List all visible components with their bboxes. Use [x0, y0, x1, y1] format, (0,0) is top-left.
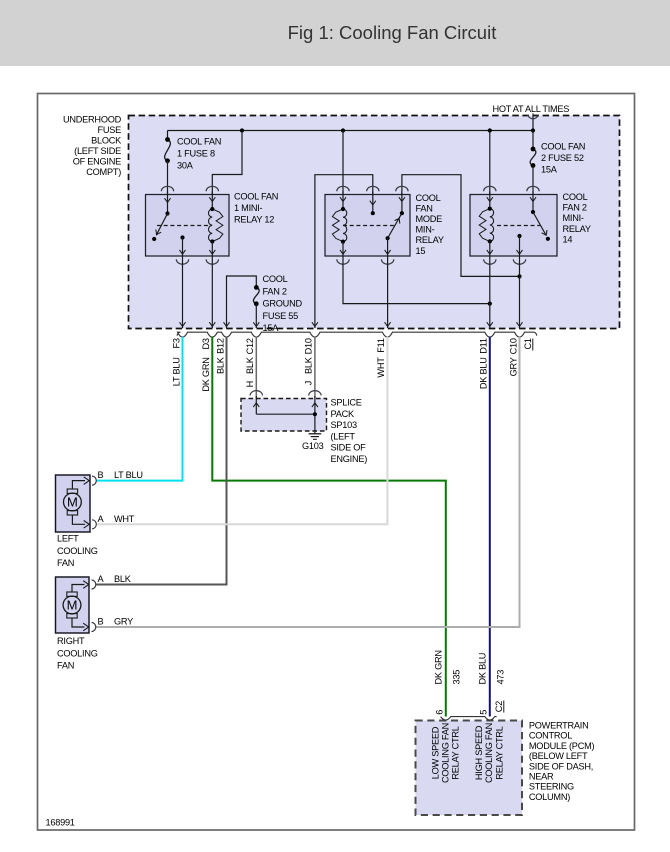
- svg-text:FAN 2: FAN 2: [263, 286, 287, 296]
- splice pack SP103 (dashed box): [241, 399, 327, 432]
- svg-text:LT BLU: LT BLU: [171, 357, 181, 386]
- svg-text:COOL FAN: COOL FAN: [234, 192, 278, 202]
- pin label D3 / wire color DK GRN: [201, 338, 211, 391]
- svg-text:SP103: SP103: [331, 420, 357, 430]
- svg-text:5: 5: [479, 710, 489, 715]
- svg-text:(LEFT: (LEFT: [331, 431, 356, 441]
- svg-text:HOT AT ALL TIMES: HOT AT ALL TIMES: [493, 104, 570, 114]
- svg-text:FAN 2: FAN 2: [563, 203, 587, 213]
- svg-text:M: M: [67, 598, 78, 613]
- svg-text:UNDERHOOD: UNDERHOOD: [63, 115, 122, 125]
- label: LEFT COOLING FAN: [57, 534, 98, 569]
- label: COOL FAN 1 MINI-RELAY 12: [234, 192, 278, 225]
- svg-text:OF ENGINE: OF ENGINE: [73, 157, 121, 167]
- svg-text:ENGINE): ENGINE): [331, 454, 368, 464]
- wire DK GRN 335: D3 to PCM pin 6: [212, 337, 445, 717]
- svg-text:15: 15: [416, 246, 426, 256]
- svg-text:RELAY: RELAY: [563, 224, 591, 234]
- wire: hot feed riser into fuse block: [527, 114, 538, 131]
- wire LT BLU: F3 to left fan terminal B: [96, 337, 182, 481]
- wire WHT: F11 to left fan terminal A: [96, 337, 387, 525]
- fuse F8: COOL FAN 1 FUSE 8 30A: [165, 131, 171, 196]
- svg-text:168991: 168991: [46, 818, 75, 828]
- pin label B12 / wire color BLK: [215, 338, 225, 374]
- wire: bus drop to relay 15 coil pin: [342, 131, 344, 196]
- svg-text:C2: C2: [494, 701, 504, 712]
- node: junction on D11 column: [488, 302, 492, 306]
- svg-text:MODULE (PCM): MODULE (PCM): [529, 741, 595, 751]
- svg-text:(LEFT SIDE: (LEFT SIDE: [74, 146, 121, 156]
- ground G103: [302, 431, 324, 451]
- label: COOL FAN 2 FUSE 52 15A: [541, 142, 585, 175]
- svg-text:SIDE OF DASH,: SIDE OF DASH,: [529, 761, 593, 771]
- svg-text:Fig 1: Cooling Fan Circuit: Fig 1: Cooling Fan Circuit: [288, 22, 497, 43]
- svg-text:(BELOW LEFT: (BELOW LEFT: [529, 751, 588, 761]
- svg-text:NEAR: NEAR: [529, 772, 554, 782]
- connector arcs at left fan terminals: [92, 476, 96, 529]
- terminal letters and wire colors at left fan: [98, 470, 143, 524]
- connector comb at PCM pins 6 and 5: [441, 717, 497, 720]
- svg-text:J BLK: J BLK: [304, 356, 314, 385]
- connector arcs into splice pack: [250, 391, 321, 396]
- fuse F55: COOL FAN 2 GROUND FUSE 55 15A: [253, 285, 259, 328]
- node: bus junction to relay 14 coil: [488, 128, 492, 132]
- svg-text:F3: F3: [171, 338, 181, 348]
- relay 14 switch blade: [530, 192, 550, 241]
- svg-text:LT BLU: LT BLU: [114, 470, 143, 480]
- svg-text:FAN: FAN: [416, 203, 433, 213]
- wire: relay 15 common pin over to relay 14 output / C10 column: [402, 175, 520, 277]
- wire: bus jog down to relay 12 coil pin: [212, 131, 242, 196]
- svg-text:LEFT: LEFT: [57, 534, 79, 544]
- label: COOL FAN 2 MINI-RELAY 14: [563, 192, 591, 245]
- relay 12 mechanical linkage (dashed): [157, 225, 212, 227]
- PCM internal: LOW SPEED COOLING FAN RELAY CTRL: [431, 723, 461, 783]
- wire: bus drop to relay 14 coil pin: [489, 131, 491, 196]
- connector designator C2 (underlined): [494, 701, 504, 713]
- svg-text:RELAY: RELAY: [416, 235, 444, 245]
- svg-text:COOL FAN: COOL FAN: [177, 137, 221, 147]
- svg-text:1 FUSE 8: 1 FUSE 8: [177, 149, 215, 159]
- svg-text:335: 335: [452, 670, 462, 685]
- svg-text:14: 14: [563, 235, 573, 245]
- wire label DK BLU / circuit 473: [477, 653, 505, 685]
- relay K15 box: COOL FAN MODE MIN-RELAY 15: [325, 195, 410, 257]
- svg-text:MIN-: MIN-: [416, 225, 435, 235]
- svg-text:RIGHT: RIGHT: [57, 636, 85, 646]
- relay 15 output pin to F11: [385, 238, 391, 256]
- svg-text:DK GRN: DK GRN: [433, 650, 443, 684]
- svg-text:COOL: COOL: [416, 193, 441, 203]
- node: bus junction to relay 15 coil: [341, 128, 345, 132]
- svg-text:D10: D10: [304, 338, 314, 354]
- svg-text:FUSE 55: FUSE 55: [263, 311, 299, 321]
- svg-text:COOLING FAN: COOLING FAN: [484, 723, 494, 783]
- svg-text:6: 6: [435, 710, 445, 715]
- svg-text:C12: C12: [245, 338, 255, 354]
- wire label DK GRN / circuit 335: [433, 650, 461, 684]
- label: SPLICE PACK SP103 (LEFT SIDE OF ENGINE): [331, 398, 368, 465]
- wire: B12 riser to ground fuse 55: [224, 276, 257, 328]
- svg-text:D3: D3: [201, 338, 211, 349]
- svg-text:COOLING: COOLING: [57, 648, 98, 658]
- figure number 168991: [46, 818, 75, 828]
- svg-text:H BLK: H BLK: [245, 356, 255, 387]
- node: bus junction to relay 12 coil: [240, 128, 244, 132]
- pin label D11 / wire color DK BLU: [479, 338, 489, 389]
- connector designator C1 (underlined): [523, 338, 533, 350]
- svg-text:15A: 15A: [541, 164, 558, 174]
- svg-text:COOL FAN: COOL FAN: [541, 142, 585, 152]
- splice internal stubs and junction: [253, 396, 318, 431]
- motor M2: right cooling fan: [56, 577, 90, 633]
- svg-text:F11: F11: [376, 338, 386, 353]
- svg-text:C1: C1: [523, 338, 533, 349]
- label: COOL FAN 2 GROUND FUSE 55 15A: [263, 274, 303, 333]
- connector arcs at relay 14 top pins: [484, 186, 540, 191]
- connector arcs at relay 15 top pins: [337, 186, 408, 191]
- svg-text:FAN: FAN: [57, 661, 74, 671]
- svg-text:MINI-: MINI-: [563, 213, 584, 223]
- svg-text:DK BLU: DK BLU: [479, 357, 489, 389]
- svg-text:BLK: BLK: [215, 356, 225, 374]
- label: UNDERHOOD FUSE BLOCK (LEFT SIDE OF ENGINE COMPT): [63, 115, 122, 178]
- relay 14 coil with parallel resistor: [479, 192, 493, 257]
- net label HOT AT ALL TIMES: [493, 104, 570, 114]
- connector arcs at right fan terminals: [92, 580, 96, 632]
- svg-text:COOL: COOL: [263, 274, 288, 284]
- svg-text:COOLING: COOLING: [57, 546, 98, 556]
- relay 15 NO contact stub: [370, 192, 376, 216]
- svg-text:COOLING FAN: COOLING FAN: [441, 723, 451, 783]
- svg-text:DK BLU: DK BLU: [477, 653, 487, 685]
- svg-text:30A: 30A: [177, 161, 194, 171]
- relay 14 mechanical linkage (dashed): [497, 225, 540, 227]
- connector arcs at relay 12 top pins: [161, 186, 218, 191]
- wire: relay 12 coil down to D3 exit: [209, 256, 215, 328]
- svg-text:WHT: WHT: [376, 357, 386, 378]
- wire: relay 14 coil down to D11 exit: [487, 256, 493, 328]
- label: RIGHT COOLING FAN: [57, 636, 98, 671]
- relay K14 box: COOL FAN 2 MINI-RELAY 14: [470, 195, 557, 257]
- terminal letters and wire colors at right fan: [98, 574, 134, 627]
- title bar: [0, 0, 670, 66]
- wire: relay 15 coil bottom over to D11 column: [343, 256, 490, 304]
- svg-text:B12: B12: [215, 338, 225, 354]
- wire GRY: C10 to right fan terminal B: [96, 337, 520, 627]
- pin number 6: [435, 710, 445, 715]
- svg-text:BLK: BLK: [114, 574, 132, 584]
- svg-text:DK GRN: DK GRN: [201, 357, 211, 391]
- svg-text:GRY: GRY: [114, 616, 133, 626]
- svg-text:BLOCK: BLOCK: [91, 136, 122, 146]
- svg-text:SIDE OF: SIDE OF: [331, 443, 367, 453]
- svg-text:GRY: GRY: [508, 357, 518, 376]
- relay 12 switch (pins 30/87a side): [152, 192, 170, 242]
- svg-text:PACK: PACK: [331, 409, 355, 419]
- relay 12 output stub to pin F3: [180, 235, 186, 256]
- svg-text:FUSE: FUSE: [97, 125, 121, 135]
- pin label F3 / wire color LT BLU: [171, 338, 181, 386]
- label: COOL FAN MODE MIN-RELAY 15: [416, 193, 444, 256]
- svg-text:M: M: [67, 495, 78, 510]
- relay 15 switch blade: [386, 192, 405, 241]
- motor M1: left cooling fan: [56, 475, 91, 532]
- wire BLK: B12 to right fan terminal A: [96, 337, 227, 585]
- svg-text:RELAY CTRL: RELAY CTRL: [451, 726, 461, 779]
- pin label C12 / wire color H BLK: [245, 338, 255, 387]
- wire: relay 12 output down to F3 exit: [180, 256, 186, 328]
- wire: relay 15 NO-contact pin over to D10 column: [312, 175, 373, 328]
- svg-text:POWERTRAIN: POWERTRAIN: [529, 721, 589, 731]
- underhood fuse block (dashed box): [129, 116, 620, 329]
- outer border frame: [38, 94, 635, 831]
- svg-text:LOW SPEED: LOW SPEED: [431, 726, 441, 779]
- wire: relay 14 output down to C10 exit: [517, 256, 523, 328]
- wire J BLK: D10 to splice pack: [314, 337, 316, 398]
- svg-text:GROUND: GROUND: [263, 299, 303, 309]
- svg-text:G103: G103: [302, 441, 324, 451]
- svg-text:473: 473: [496, 670, 506, 685]
- wire DK BLU 473: D11 to PCM pin 5: [489, 337, 491, 717]
- label: COOL FAN 1 FUSE 8 30A: [177, 137, 221, 171]
- wire H BLK: C12 to splice pack: [255, 337, 257, 398]
- svg-text:COOL: COOL: [563, 192, 588, 202]
- connector arcs at relay 12 bottom pins: [176, 259, 218, 264]
- node: bus junction at fuse 52: [531, 128, 535, 132]
- svg-text:1 MINI-: 1 MINI-: [234, 203, 263, 213]
- powertrain control module PCM (dashed box): [416, 721, 523, 816]
- wire: B+ bus inside fuse block: [168, 130, 534, 132]
- svg-text:COMPT): COMPT): [86, 167, 121, 177]
- svg-text:2 FUSE 52: 2 FUSE 52: [541, 153, 584, 163]
- relay 15 coil with parallel resistor: [332, 192, 346, 257]
- svg-text:D11: D11: [479, 338, 489, 354]
- relay K12 box: COOL FAN 1 MINI-RELAY 12: [146, 195, 230, 257]
- svg-text:WHT: WHT: [114, 514, 135, 524]
- label: POWERTRAIN CONTROL MODULE (PCM) location: [529, 721, 595, 802]
- node: junction at C10 column: [517, 274, 521, 278]
- svg-text:B: B: [98, 470, 104, 480]
- pin number 5: [479, 710, 489, 715]
- connector arcs at relay 14 bottom pins: [484, 259, 526, 264]
- connector C1 face (comb strip at fuse block bottom): [177, 332, 537, 337]
- pin label D10 / wire color J BLK: [304, 338, 314, 385]
- svg-text:SPLICE: SPLICE: [331, 398, 362, 408]
- svg-text:CONTROL: CONTROL: [529, 731, 572, 741]
- svg-text:STEERING: STEERING: [529, 782, 574, 792]
- svg-text:RELAY CTRL: RELAY CTRL: [494, 726, 504, 779]
- svg-text:B: B: [98, 616, 104, 626]
- relay 15 mechanical linkage (dashed): [343, 225, 396, 227]
- connector arcs at relay 15 bottom pins: [337, 259, 394, 264]
- svg-text:COLUMN): COLUMN): [529, 792, 570, 802]
- fuse F52: COOL FAN 2 FUSE 52 15A: [530, 131, 536, 196]
- pin label F11 / wire color WHT: [376, 338, 386, 377]
- svg-text:C10: C10: [508, 338, 518, 354]
- svg-text:RELAY 12: RELAY 12: [234, 215, 274, 225]
- svg-text:HIGH SPEED: HIGH SPEED: [474, 725, 484, 780]
- relay 12 coil with parallel resistor: [209, 192, 223, 257]
- svg-text:MODE: MODE: [416, 214, 443, 224]
- pin label C10 / wire color GRY: [508, 338, 518, 376]
- PCM internal: HIGH SPEED COOLING FAN RELAY CTRL: [474, 723, 504, 783]
- wire: relay 15 output down to F11 exit: [385, 256, 391, 328]
- svg-text:FAN: FAN: [57, 558, 74, 568]
- relay 14 output stub to C10: [517, 234, 523, 256]
